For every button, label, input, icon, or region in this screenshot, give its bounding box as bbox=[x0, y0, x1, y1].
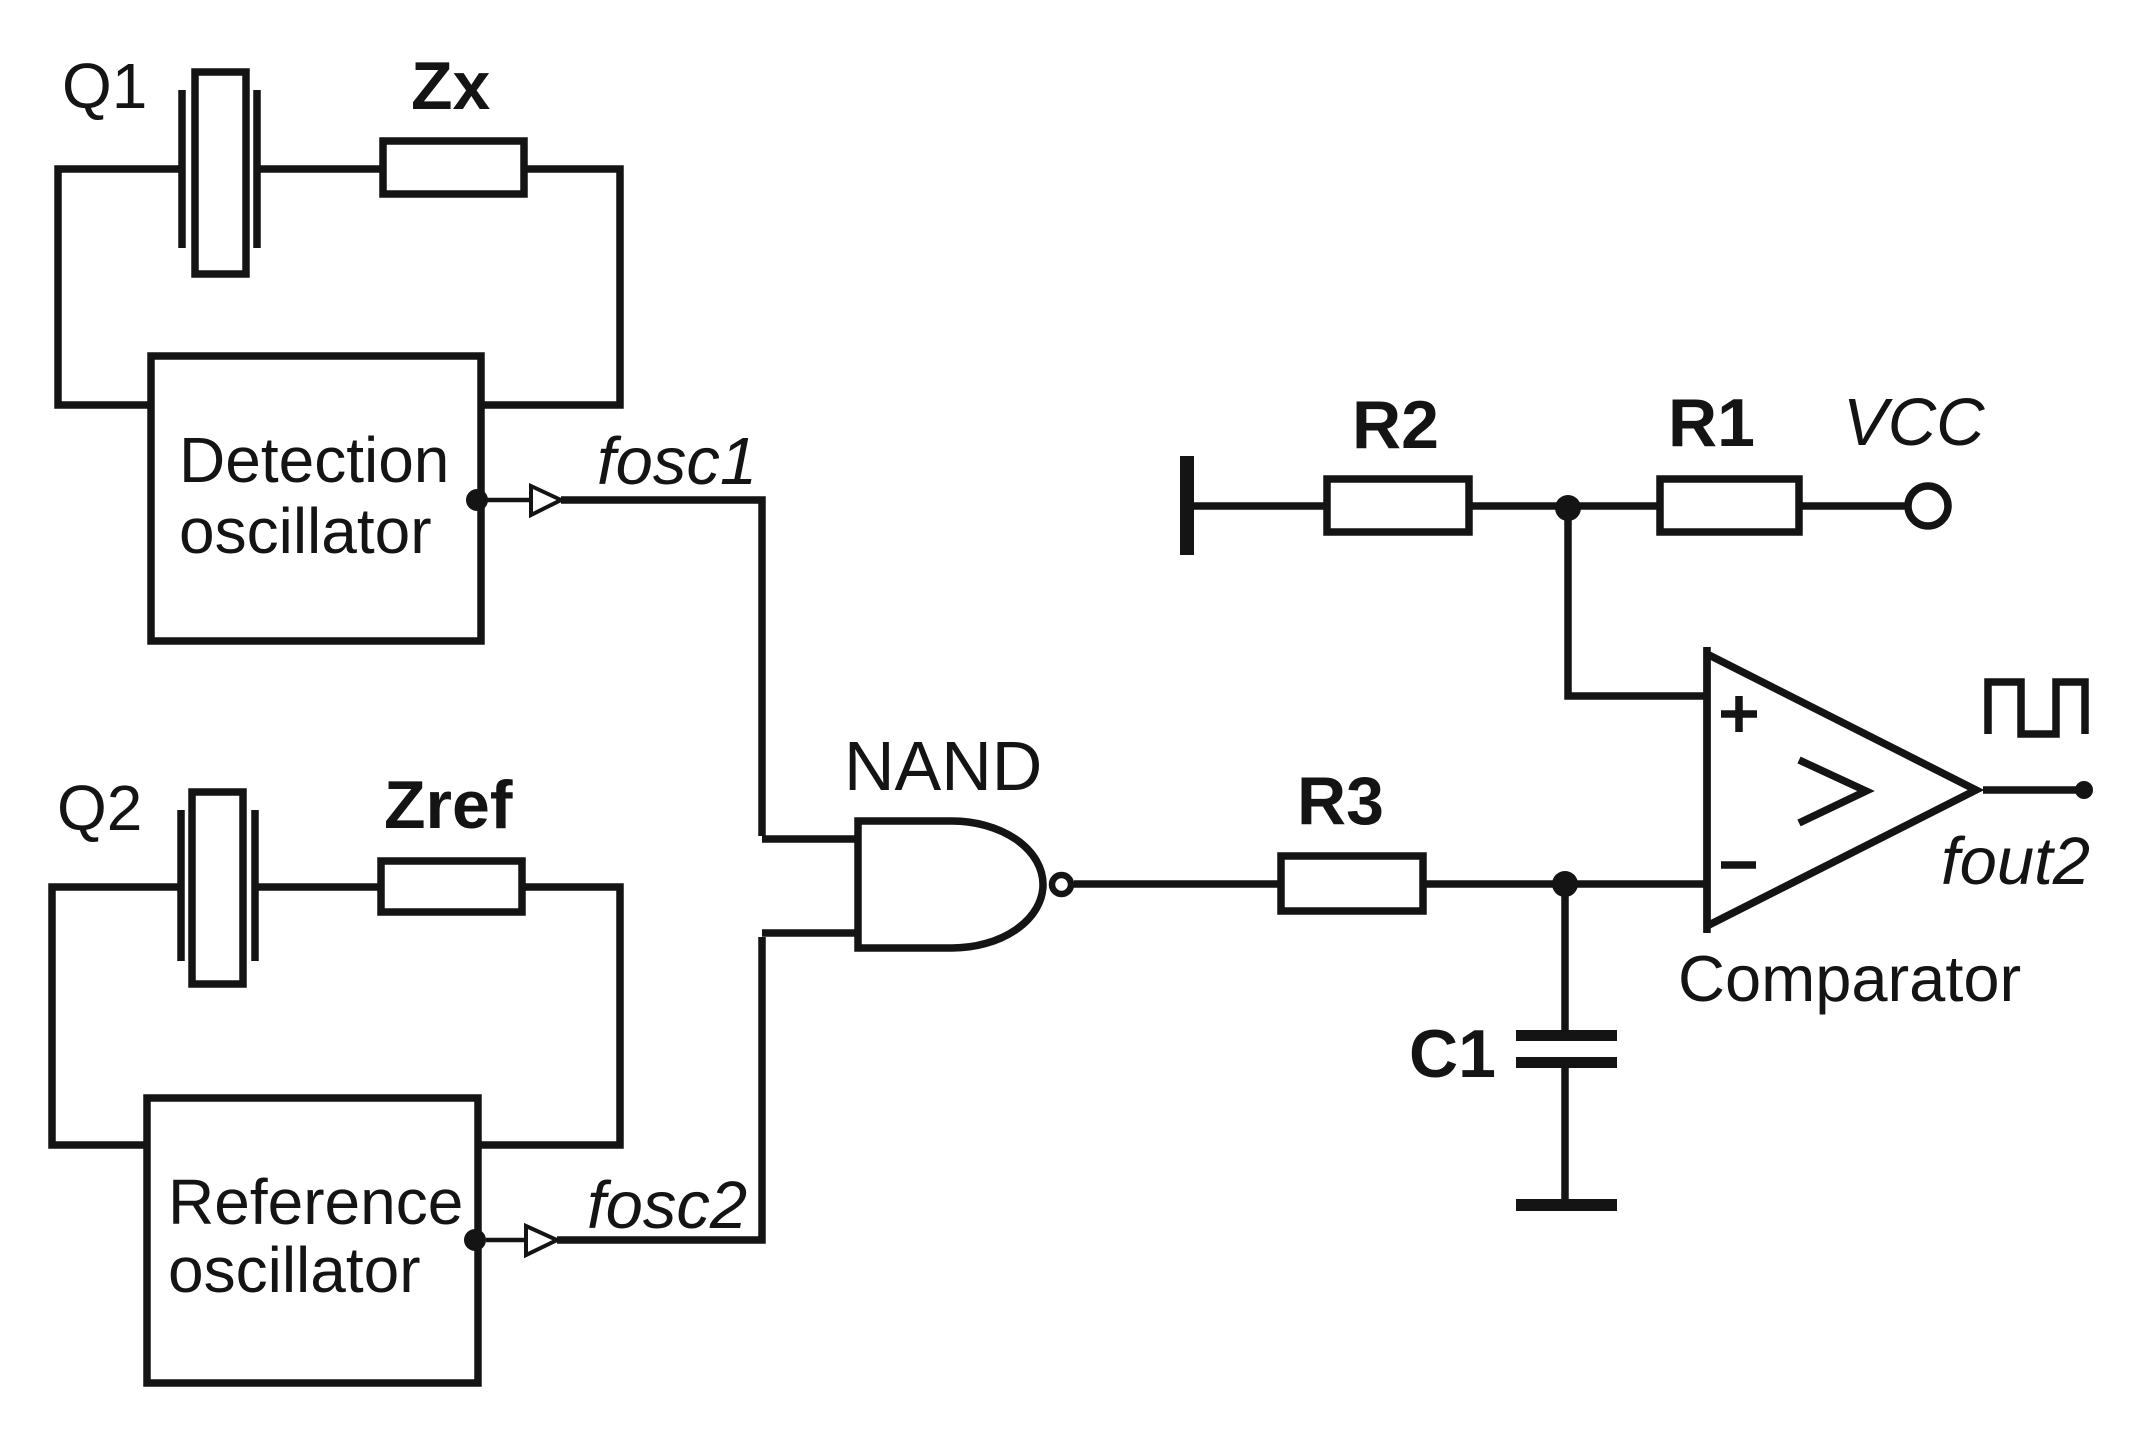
svg-text:Zx: Zx bbox=[411, 48, 491, 124]
svg-text:oscillator: oscillator bbox=[168, 1234, 421, 1306]
svg-text:oscillator: oscillator bbox=[179, 495, 432, 567]
svg-text:Comparator: Comparator bbox=[1678, 942, 2021, 1015]
svg-text:Zref: Zref bbox=[384, 767, 513, 843]
svg-text:VCC: VCC bbox=[1843, 385, 1985, 460]
svg-text:Q1: Q1 bbox=[62, 50, 147, 122]
svg-text:Reference: Reference bbox=[168, 1166, 463, 1238]
svg-text:fosc2: fosc2 bbox=[587, 1168, 747, 1243]
svg-text:R2: R2 bbox=[1352, 387, 1439, 463]
svg-text:fout2: fout2 bbox=[1941, 824, 2090, 899]
svg-text:R1: R1 bbox=[1668, 385, 1755, 461]
svg-text:C1: C1 bbox=[1409, 1016, 1496, 1092]
svg-text:fosc1: fosc1 bbox=[597, 424, 757, 499]
svg-text:NAND: NAND bbox=[844, 727, 1042, 805]
svg-text:R3: R3 bbox=[1297, 763, 1384, 839]
svg-text:Detection: Detection bbox=[179, 424, 449, 496]
svg-text:Q2: Q2 bbox=[57, 772, 142, 844]
